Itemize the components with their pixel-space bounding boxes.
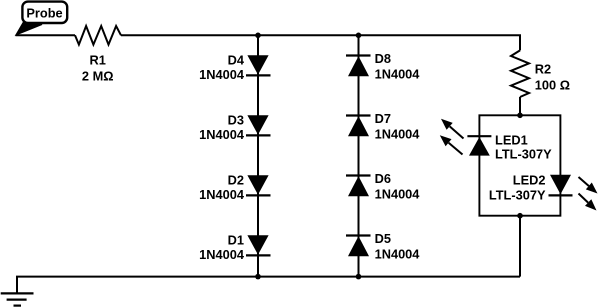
diode D3 — [246, 115, 271, 135]
label LED1 value — [495, 147, 552, 162]
svg-text:D1: D1 — [228, 232, 244, 247]
wire: probe tip to R1 — [16, 34, 76, 36]
label LED2 value — [489, 187, 546, 202]
svg-text:D3: D3 — [228, 112, 244, 127]
svg-text:D5: D5 — [375, 231, 391, 246]
LED1 light arrow lower — [440, 135, 463, 154]
junction: LED box bottom / bottom rail — [517, 213, 523, 219]
label D5 — [375, 231, 391, 246]
LED LED1 — [467, 136, 491, 155]
label D4 — [228, 52, 245, 67]
label LED1 — [495, 132, 528, 147]
resistor R1 — [75, 26, 121, 45]
svg-text:D6: D6 — [375, 171, 391, 186]
wire: right diode chain vertical — [358, 35, 360, 276]
label D4 value — [199, 67, 245, 82]
svg-text:2 MΩ: 2 MΩ — [82, 69, 114, 84]
label D7 value — [375, 127, 421, 142]
LED1 light arrow upper — [441, 119, 464, 139]
label R2 value 100 Ohm — [535, 78, 570, 93]
probe callout tail — [16, 23, 42, 35]
svg-text:1N4004: 1N4004 — [375, 247, 421, 262]
svg-text:1N4004: 1N4004 — [375, 67, 421, 82]
diode D4 — [246, 55, 271, 75]
svg-text:1N4004: 1N4004 — [199, 247, 245, 262]
label D3 — [228, 112, 244, 127]
svg-text:100 Ω: 100 Ω — [535, 78, 570, 93]
svg-text:LTL-307Y: LTL-307Y — [495, 147, 552, 162]
junction: top rail / D8 chain — [356, 33, 362, 39]
diode D8 — [346, 56, 371, 77]
svg-text:D2: D2 — [228, 172, 244, 187]
svg-text:Probe: Probe — [26, 6, 62, 21]
wire: LED box bottom to bottom rail — [519, 216, 521, 277]
wire: left diode chain vertical — [257, 35, 259, 276]
diode D2 — [246, 175, 271, 195]
junction: bottom rail / D1 — [255, 274, 261, 280]
diode D1 — [246, 235, 271, 255]
svg-text:LTL-307Y: LTL-307Y — [489, 187, 546, 202]
svg-text:LED2: LED2 — [513, 173, 546, 188]
LED LED2 — [549, 175, 573, 196]
svg-text:1N4004: 1N4004 — [375, 187, 421, 202]
label D8 — [375, 51, 391, 66]
svg-text:1N4004: 1N4004 — [375, 127, 421, 142]
svg-text:LED1: LED1 — [495, 132, 528, 147]
label D1 — [228, 232, 244, 247]
label D2 value — [199, 187, 245, 202]
resistor R2 — [511, 50, 529, 97]
LED2 light arrow upper — [579, 177, 598, 194]
label R2 — [535, 62, 551, 77]
label D7 — [375, 111, 391, 126]
diode D7 — [346, 116, 371, 137]
svg-text:1N4004: 1N4004 — [199, 67, 245, 82]
diode D6 — [346, 176, 371, 197]
wire: R1 to top-right corner down to R2 — [121, 35, 520, 50]
wire: R2 to LED box top — [519, 97, 521, 115]
junction: top rail / D4 chain — [255, 33, 261, 39]
wire: LED box outline — [479, 115, 560, 215]
svg-text:D7: D7 — [375, 111, 391, 126]
label Probe — [26, 6, 62, 21]
svg-text:D8: D8 — [375, 51, 391, 66]
ground — [1, 293, 34, 305]
svg-text:R1: R1 — [90, 52, 106, 67]
label D8 value — [375, 67, 421, 82]
label D6 value — [375, 187, 421, 202]
label R1 value 2 MOhm — [82, 69, 114, 84]
label D1 value — [199, 247, 245, 262]
probe callout box — [22, 2, 67, 23]
LED2 light arrow lower — [579, 194, 597, 211]
junction: bottom rail / D5 — [356, 274, 362, 280]
svg-text:1N4004: 1N4004 — [199, 187, 245, 202]
svg-text:R2: R2 — [535, 62, 551, 77]
label D6 — [375, 171, 391, 186]
wire: bottom rail — [17, 277, 520, 294]
label LED2 — [513, 173, 546, 188]
label D3 value — [199, 127, 245, 142]
junction: R2 / LED box top — [517, 113, 523, 119]
svg-text:D4: D4 — [228, 52, 245, 67]
svg-text:1N4004: 1N4004 — [199, 127, 245, 142]
label D5 value — [375, 247, 421, 262]
label D2 — [228, 172, 244, 187]
label R1 — [90, 52, 106, 67]
diode D5 — [346, 236, 371, 257]
